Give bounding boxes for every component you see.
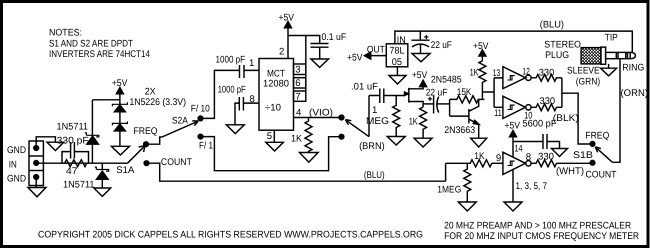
svg-text:12080: 12080 — [263, 79, 289, 90]
svg-text:13: 13 — [493, 68, 501, 79]
svg-text:COPYRIGHT 2005 DICK CAPPELS AL: COPYRIGHT 2005 DICK CAPPELS ALL RIGHTS R… — [38, 230, 423, 241]
node F/10 — [198, 116, 203, 121]
svg-text:7: 7 — [295, 91, 300, 102]
switch S1B arm — [596, 147, 613, 162]
ground (78L05) — [396, 67, 398, 76]
svg-text:GND: GND — [7, 174, 26, 185]
svg-text:5600 pF: 5600 pF — [523, 119, 557, 130]
svg-text:330: 330 — [538, 152, 554, 163]
svg-text:INVERTERS ARE 74HCT14: INVERTERS ARE 74HCT14 — [49, 49, 151, 60]
svg-text:(BLU): (BLU) — [540, 19, 564, 30]
captions — [38, 221, 639, 242]
transistor Q2 2N3663 — [450, 115, 469, 117]
svg-text:MEG: MEG — [366, 116, 389, 127]
svg-text:2: 2 — [279, 47, 284, 58]
svg-text:1N5226 (3.3V): 1N5226 (3.3V) — [130, 97, 187, 108]
notes text — [49, 27, 151, 60]
svg-text:1N5711: 1N5711 — [57, 121, 89, 132]
svg-text:S1A: S1A — [116, 165, 135, 176]
svg-text:330 pF: 330 pF — [57, 136, 89, 147]
svg-text:S1B: S1B — [573, 150, 593, 161]
svg-text:3: 3 — [295, 65, 300, 76]
ground (1K pin4) — [300, 153, 319, 163]
resistor 15K — [450, 96, 485, 103]
svg-text:STEREO: STEREO — [544, 40, 581, 51]
svg-text:.01 uF: .01 uF — [351, 82, 378, 93]
diode D1 1N5711 top — [91, 144, 93, 163]
svg-text:2N5485: 2N5485 — [431, 74, 462, 85]
node FREQ (S1 throw) — [144, 142, 149, 147]
svg-text:÷10: ÷10 — [265, 103, 281, 114]
ground (5600 pF) — [552, 149, 568, 157]
ground (pins 1,3,5,7) — [512, 170, 514, 203]
svg-text:8: 8 — [526, 152, 531, 163]
svg-text:4: 4 — [296, 108, 302, 119]
svg-text:+5V: +5V — [412, 70, 428, 81]
stereo plug body — [581, 48, 601, 64]
svg-text:+5V: +5V — [473, 41, 489, 52]
wire node to inverter inputs — [482, 78, 494, 107]
svg-text:FREQ: FREQ — [134, 126, 158, 137]
switch S2A arm — [162, 121, 198, 137]
wire F/1 to (BRN) node — [203, 137, 339, 171]
svg-text:IN: IN — [9, 160, 17, 171]
switch S2B arm — [346, 120, 369, 136]
wire 330 outputs junction — [561, 78, 563, 108]
svg-text:TIP: TIP — [605, 33, 618, 44]
pin 9 wire — [492, 162, 503, 164]
switch S1A arm — [128, 146, 145, 163]
svg-text:SLEEVE: SLEEVE — [567, 66, 600, 77]
wire IN line — [39, 162, 128, 164]
IC U1 MCT 12080 — [259, 59, 294, 131]
svg-text:0.1 uF: 0.1 uF — [322, 32, 347, 43]
ground (1000 pF #2) — [226, 125, 244, 134]
svg-text:1K: 1K — [291, 134, 303, 145]
resistor 330 #1 — [531, 74, 562, 81]
ground (1K source) — [414, 138, 432, 147]
ground (22uF #1) — [412, 54, 430, 62]
node VIO — [339, 115, 344, 120]
zener Z1 1N5226 — [112, 102, 127, 106]
+5V output arrow — [370, 55, 386, 57]
svg-text:RING: RING — [622, 63, 644, 74]
wire S2B common up to .01uF — [368, 96, 370, 137]
ground (1 MEG gate) — [387, 137, 405, 146]
resistor 330 #2 — [531, 104, 562, 111]
svg-text:+5V: +5V — [347, 53, 363, 64]
wire (BLK) to S1B FREQ — [562, 93, 590, 144]
svg-text:1: 1 — [372, 105, 377, 116]
wire F/10 up to divider input — [203, 70, 230, 118]
svg-text:+5V: +5V — [279, 12, 295, 23]
inverter U2C (pins 9/8) — [503, 152, 526, 174]
node COUNT (S1 throw) — [144, 161, 149, 166]
svg-text:PLUG: PLUG — [545, 50, 569, 61]
svg-text:11: 11 — [494, 108, 502, 119]
svg-text:(BLK): (BLK) — [553, 113, 579, 124]
capacitor 22 uF #2 — [423, 103, 434, 105]
inverter U2B (pins 11/10) — [503, 96, 526, 118]
svg-text:330: 330 — [540, 96, 556, 107]
svg-text:COUNT: COUNT — [586, 169, 617, 180]
resistor 1 MEG (gate) — [393, 96, 400, 137]
svg-text:2N3663: 2N3663 — [444, 125, 475, 136]
svg-text:S1 AND S2 ARE DPDT: S1 AND S2 ARE DPDT — [49, 39, 133, 50]
svg-text:12: 12 — [522, 67, 530, 78]
resistor 1K (pin 4) — [305, 118, 312, 153]
ground (0.1 uF) — [311, 59, 329, 67]
regulator U3 78L05 — [386, 44, 408, 67]
ground (Q2 emitter) — [471, 138, 487, 147]
svg-text:15K: 15K — [457, 87, 472, 98]
wire pins 3,6,7 rail — [305, 36, 307, 92]
svg-text:FOR 20 MHZ INPUT CMOS FREQUENC: FOR 20 MHZ INPUT CMOS FREQUENCY METER — [444, 231, 639, 242]
svg-text:IN: IN — [397, 35, 406, 46]
svg-text:(GRN): (GRN) — [576, 77, 601, 88]
svg-text:GND: GND — [7, 145, 26, 156]
svg-text:14: 14 — [515, 143, 523, 154]
svg-text:1, 3, 5, 7: 1, 3, 5, 7 — [516, 181, 548, 192]
ground (top GND) — [47, 142, 64, 150]
ground (bottom GND) — [28, 188, 46, 197]
svg-text:1K: 1K — [409, 117, 418, 128]
wire top GND to ground — [36, 137, 55, 146]
pin 2 lead — [287, 36, 289, 59]
svg-text:1K: 1K — [470, 68, 479, 79]
svg-text:F/ 1: F/ 1 — [199, 140, 213, 151]
zener Z2 1N5226 — [112, 121, 127, 125]
svg-text:22 uF: 22 uF — [426, 88, 448, 99]
wire FREQ node to S2A common — [148, 137, 162, 144]
top (BLU) power rail — [395, 31, 632, 53]
wire tap to zener rail — [92, 99, 120, 101]
wire bottom GND to ground — [35, 179, 37, 187]
svg-text:22 uF: 22 uF — [431, 40, 452, 51]
resistor 1K (pin 9 series) — [446, 160, 492, 167]
svg-text:1: 1 — [249, 58, 254, 69]
pins 3,6,7 boxes — [294, 64, 306, 75]
resistor 1K pullup — [479, 61, 486, 100]
ground (sleeve GRN) — [601, 68, 617, 76]
svg-text:9: 9 — [496, 153, 501, 164]
svg-text:(VIO): (VIO) — [309, 108, 333, 119]
svg-text:(BLU): (BLU) — [364, 170, 385, 181]
resistor 330 #3 — [531, 160, 590, 167]
wire COUNT to bottom (BLU) run — [149, 163, 446, 181]
ground (zener stack) — [111, 146, 129, 155]
resistor 1K (Q1 source) — [420, 107, 427, 138]
capacitor 5600 pF — [513, 141, 543, 143]
svg-text:1000 pF: 1000 pF — [216, 55, 246, 66]
svg-text:COUNT: COUNT — [161, 157, 192, 168]
svg-text:FREQ: FREQ — [585, 131, 609, 142]
ground (1MEG) — [458, 202, 476, 211]
svg-text:S2A: S2A — [172, 116, 189, 127]
svg-text:1MEG: 1MEG — [437, 185, 461, 196]
node FREQ (S1B) — [590, 142, 595, 147]
+5V arrow (Q1 drain) — [420, 80, 427, 86]
svg-text:8: 8 — [250, 94, 255, 105]
node base/15K junction — [449, 99, 451, 116]
capacitor 1000 pF #1 — [239, 65, 241, 78]
svg-text:1K: 1K — [474, 151, 485, 162]
svg-text:(BRN): (BRN) — [359, 141, 385, 152]
svg-text:(WHT): (WHT) — [556, 166, 584, 177]
sleeve ground lead — [608, 64, 610, 68]
svg-text:78L: 78L — [390, 46, 406, 57]
connector J1 input jack — [29, 141, 43, 186]
transistor Q1 2N5485 JFET — [405, 92, 409, 96]
svg-text:1N5711: 1N5711 — [63, 179, 95, 190]
svg-text:5: 5 — [267, 131, 272, 142]
svg-text:(ORN): (ORN) — [621, 88, 649, 99]
capacitor 22 uF #1 — [419, 31, 421, 40]
plus sign (22uF #2) — [428, 97, 432, 101]
plus sign (22uF #1) — [424, 35, 428, 39]
ring wire (ORN) — [612, 59, 620, 163]
pin 5 lead + ground — [273, 130, 275, 142]
wire +5V rail to 0.1uF — [288, 36, 320, 44]
node BRN — [339, 134, 344, 139]
resistor 1MEG (pin 9) — [464, 163, 471, 202]
capacitor 0.1 uF — [311, 43, 329, 45]
diode D2 1N5711 bottom — [101, 163, 103, 169]
resistor 47 — [62, 160, 88, 167]
capacitor 330 pF branch — [62, 152, 89, 164]
svg-text:NOTES:: NOTES: — [49, 27, 82, 38]
svg-text:1000 pF: 1000 pF — [218, 84, 246, 95]
svg-text:330: 330 — [539, 67, 555, 78]
pin 4 wire — [294, 117, 340, 119]
svg-text:47: 47 — [66, 166, 78, 177]
ground (D2) — [94, 188, 111, 196]
svg-text:6: 6 — [295, 78, 300, 89]
capacitor 1000 pF #2 — [238, 97, 240, 111]
svg-text:05: 05 — [392, 57, 402, 68]
wire BLU riser — [445, 163, 447, 181]
svg-text:F/ 10: F/ 10 — [191, 103, 210, 114]
node COUNT (S1B) — [590, 160, 595, 165]
svg-text:+5V: +5V — [505, 121, 521, 132]
node F/1 — [198, 134, 203, 139]
inverter U2A (pins 13/12) — [503, 67, 526, 89]
